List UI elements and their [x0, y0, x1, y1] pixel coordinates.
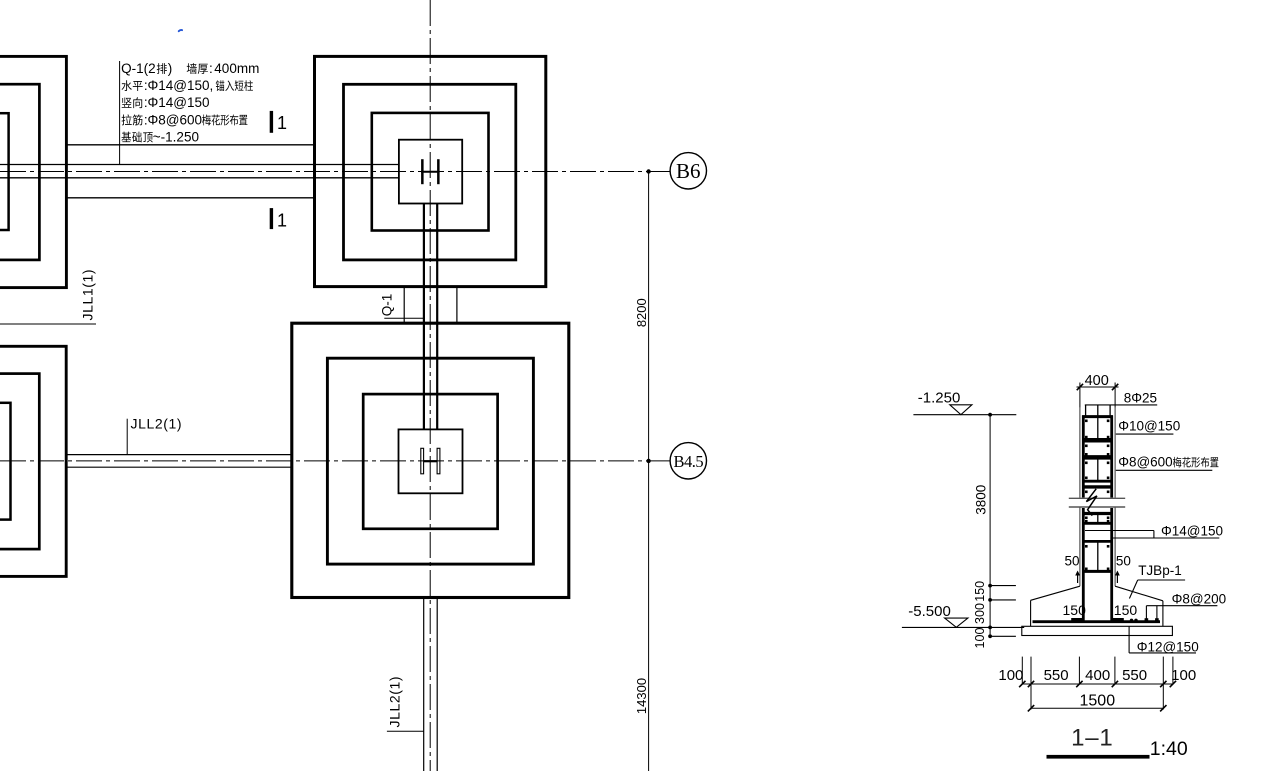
foundation F-B third square [372, 113, 489, 231]
break symbol lines [1066, 498, 1128, 507]
label phi14@150 leader drop [1153, 531, 1155, 539]
svg-text:300: 300 [973, 603, 987, 624]
base slab rectangle [1022, 626, 1173, 635]
footing rebar dots [1130, 619, 1159, 622]
note block leader line [119, 61, 121, 165]
note line 2: horizontal rebar [122, 78, 253, 93]
wall face left (thin) [1079, 408, 1081, 498]
centerline axis B4.5 row [0, 460, 649, 462]
blue pen mark [179, 30, 182, 31]
bottom dimension line tier 2 [1031, 707, 1163, 709]
svg-text:Φ12@150: Φ12@150 [1137, 639, 1199, 654]
svg-text::: : [209, 61, 213, 76]
svg-text:400: 400 [1085, 373, 1109, 389]
svg-text:14300: 14300 [634, 678, 649, 714]
note line 5: top of foundation elevation [121, 130, 198, 145]
svg-text:Q-1: Q-1 [380, 294, 395, 317]
svg-text:1500: 1500 [1080, 692, 1116, 709]
label JLL2(1) leader (bottom) [387, 730, 424, 732]
bottom dimension extension lines [1022, 657, 1173, 710]
svg-text:550: 550 [1122, 667, 1147, 684]
svg-text:B6: B6 [676, 159, 701, 183]
svg-text:Φ14@150: Φ14@150 [1161, 524, 1223, 539]
foundation F-A (top-left, partial) outer square [0, 56, 66, 287]
foundation F-C (middle-left, partial) outer square [0, 346, 66, 576]
svg-text:Φ8@600: Φ8@600 [1118, 455, 1173, 470]
foundation F-D second square [327, 358, 533, 564]
svg-text:150: 150 [1063, 602, 1087, 618]
dimension line vertical (grid B6 to B4.5) [648, 172, 650, 771]
section vertical dimension line [989, 415, 991, 637]
svg-text:Φ8@600: Φ8@600 [148, 112, 203, 127]
dimension tick at -1.250 [988, 413, 992, 417]
note line 3: vertical rebar [122, 95, 210, 110]
footing slope left [1031, 586, 1080, 600]
tier 1 ticks [1019, 681, 1176, 687]
svg-text:8200: 8200 [634, 298, 649, 327]
svg-text:): ) [168, 61, 173, 76]
label phi14@150 underline [1112, 537, 1219, 539]
wall Q-1 vertical right edge [456, 287, 458, 324]
label phi14@150 leader top line [1085, 530, 1154, 532]
rebar corner dots [1085, 420, 1109, 571]
note line 1: Q-1 (2 rows) wall thickness 400mm [121, 61, 259, 76]
beam JLL1 bottom line (horizontal) [0, 177, 399, 179]
steel column section H at F-B [421, 159, 440, 184]
svg-text:JLL2(1): JLL2(1) [131, 416, 183, 432]
wall Q-1 vertical left edge [403, 287, 405, 324]
foundation F-C middle square [0, 374, 39, 549]
section cut mark 1 (upper) [270, 111, 287, 133]
note line 4: tie bars [122, 112, 248, 127]
label Q-1 leader [384, 317, 424, 319]
svg-text:B4.5: B4.5 [673, 452, 703, 471]
level mark -5.500 line [902, 626, 990, 628]
foundation F-A inner square [0, 113, 9, 230]
wall cage left (thick) [1082, 415, 1085, 497]
stirrup bands in wall section [1082, 417, 1113, 572]
label phi10@150 underline [1116, 433, 1174, 435]
section cut mark 1 (lower) [270, 208, 287, 230]
svg-text:,: , [210, 78, 214, 93]
svg-text:400mm: 400mm [214, 61, 259, 76]
beam JLL2 lower vertical left line [423, 598, 425, 771]
wall Q-1 top edge (horizontal) [66, 144, 314, 146]
grid bubble B6 [670, 153, 706, 189]
dimension node at B6 [646, 169, 650, 173]
steel column section H at F-D [421, 448, 440, 474]
foundation F-B pedestal square [399, 140, 462, 204]
svg-text:50: 50 [1065, 554, 1080, 569]
section title underline [1047, 755, 1150, 759]
beam JLL2 bottom line [66, 466, 292, 468]
foundation F-D (center) outer square [292, 323, 569, 597]
svg-text:50: 50 [1116, 554, 1131, 569]
label phi8@600 plum layout underline [1116, 469, 1213, 471]
svg-text:Φ14@150: Φ14@150 [148, 78, 210, 93]
svg-text:550: 550 [1044, 667, 1069, 684]
label TJBp-1 leader diagonal [1129, 580, 1137, 599]
beam Q-1 vertical right line [436, 204, 438, 430]
foundation F-B second square [344, 84, 516, 260]
dowel bars above wall top [1086, 405, 1111, 416]
level mark -1.250 triangle [950, 405, 972, 415]
label phi8@600 plum layout text [1118, 455, 1218, 470]
svg-text:Φ14@150: Φ14@150 [148, 95, 210, 110]
svg-text:-1.250: -1.250 [918, 389, 961, 406]
svg-text:JLL2(1): JLL2(1) [387, 676, 403, 728]
beam JLL2 lower vertical right line [436, 598, 438, 771]
svg-text:3800: 3800 [973, 485, 988, 515]
centerline axis B6 row [0, 171, 649, 173]
svg-text:TJBp-1: TJBp-1 [1138, 563, 1182, 578]
foundation F-A middle square [0, 84, 39, 260]
footing edge right [1162, 601, 1164, 627]
level mark -5.500 triangle [945, 618, 968, 627]
foundation F-D pedestal square [399, 429, 463, 493]
dimension 400 ticks [1077, 384, 1119, 390]
phi8@200 stirrup symbol [1145, 606, 1159, 622]
wall face right (thin) [1114, 408, 1116, 498]
svg-text:100: 100 [998, 667, 1023, 684]
bottom dimension line tier 1 [1022, 683, 1173, 685]
grid bubble B4.5 [670, 443, 706, 479]
svg-text:100: 100 [1171, 667, 1196, 684]
svg-text:400: 400 [1085, 667, 1110, 684]
wall cage right (thick) [1110, 415, 1113, 497]
label 8phi25 leader [1085, 404, 1157, 406]
svg-text:150: 150 [973, 581, 987, 602]
svg-text:~-1.250: ~-1.250 [153, 130, 199, 145]
wall Q-1 bottom edge (horizontal) [66, 197, 314, 199]
dimension 400 extension lines [1080, 383, 1115, 408]
label phi8@200 underline [1146, 605, 1217, 607]
beam JLL2 top line [66, 454, 292, 456]
foundation F-C inner square [0, 403, 11, 520]
svg-text:1: 1 [277, 113, 287, 133]
svg-text:8Φ25: 8Φ25 [1124, 390, 1157, 405]
break symbol zigzag [1086, 489, 1097, 516]
foundation F-D third square [363, 394, 497, 529]
beam JLL1 top line (horizontal) [0, 164, 399, 166]
svg-text:100: 100 [973, 628, 987, 649]
lap rebar bars at footing [1071, 618, 1124, 621]
beam Q-1 vertical left line [423, 204, 425, 430]
tier 2 ticks [1028, 705, 1167, 711]
dimension tick 3800/150 boundary [988, 584, 1016, 588]
footing edge left [1030, 600, 1032, 626]
svg-text:Q-1(2: Q-1(2 [121, 61, 156, 76]
svg-text:-5.500: -5.500 [908, 603, 951, 620]
dimension tick 300/100 boundary [988, 626, 1024, 630]
svg-text:1: 1 [277, 211, 287, 231]
svg-text:Φ10@150: Φ10@150 [1118, 418, 1180, 433]
level mark -1.250 line [913, 414, 1016, 416]
svg-text:1:40: 1:40 [1150, 738, 1188, 760]
svg-text:150: 150 [1114, 602, 1138, 618]
label phi12@150 box line [1129, 626, 1196, 653]
label JLL2(1) leader (left) [126, 419, 128, 455]
footing bottom rebar (thick) [1033, 620, 1161, 623]
svg-text:Φ8@200: Φ8@200 [1172, 591, 1227, 606]
centerline vertical column axis [429, 0, 431, 771]
svg-text:1–1: 1–1 [1071, 725, 1113, 752]
footing slope right [1115, 586, 1163, 601]
dimension 50 arrows [1075, 571, 1120, 584]
label TJBp-1 underline [1138, 579, 1185, 581]
dimension node at B4.5 [646, 459, 650, 463]
dimension 400 line [1077, 386, 1119, 388]
column center rebar line [1097, 405, 1099, 572]
dimension tick below 100 [988, 634, 1016, 638]
dimension tick 150/300 boundary [988, 598, 1016, 602]
foundation F-B (top-center) outer square [315, 56, 546, 286]
label JLL1(1) leader [0, 323, 96, 325]
svg-text:JLL1(1): JLL1(1) [80, 269, 96, 321]
